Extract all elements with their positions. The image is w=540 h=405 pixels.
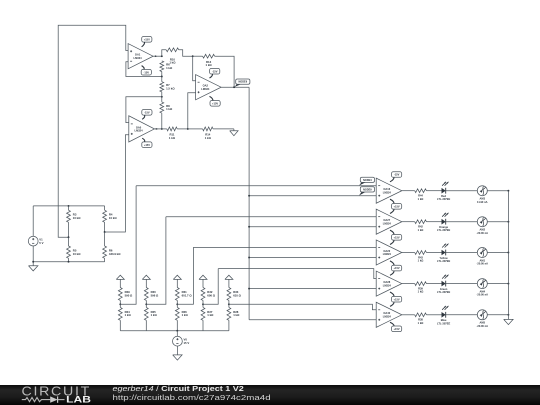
svg-text:LTL-307EE: LTL-307EE <box>437 259 450 263</box>
svg-text:+15V: +15V <box>144 143 150 147</box>
svg-text:1 kΩ: 1 kΩ <box>151 313 158 317</box>
svg-text:LAB: LAB <box>66 395 91 405</box>
svg-text:-20.00 nA: -20.00 nA <box>477 324 489 328</box>
svg-text:1 kΩ: 1 kΩ <box>166 107 173 111</box>
svg-text:LTL-307EE: LTL-307EE <box>437 321 450 325</box>
svg-text:1 kΩ: 1 kΩ <box>206 63 213 67</box>
svg-text:1 kΩ: 1 kΩ <box>418 259 424 263</box>
svg-text:-15V: -15V <box>212 69 218 73</box>
svg-text:11.90 nA: 11.90 nA <box>477 200 488 204</box>
svg-text:LTL-307EE: LTL-307EE <box>437 228 450 232</box>
svg-text:LM324: LM324 <box>134 129 143 133</box>
svg-text:NODE9: NODE9 <box>238 81 247 84</box>
svg-text:+15V: +15V <box>394 266 400 270</box>
svg-text:LM324: LM324 <box>383 252 392 256</box>
svg-text:NODE9: NODE9 <box>363 188 372 191</box>
svg-text:+15V: +15V <box>394 235 400 239</box>
svg-text:LM324: LM324 <box>383 315 392 319</box>
svg-text:10 kΩ: 10 kΩ <box>73 216 81 220</box>
svg-text:-15V: -15V <box>144 70 150 74</box>
svg-text:LTL-307EE: LTL-307EE <box>437 290 450 294</box>
svg-text:1 kΩ: 1 kΩ <box>418 321 424 325</box>
svg-text:1 kΩ: 1 kΩ <box>125 313 132 317</box>
svg-text:+15V: +15V <box>212 101 218 105</box>
svg-text:590 Ω: 590 Ω <box>125 293 133 297</box>
svg-text:1 kΩ: 1 kΩ <box>418 197 424 201</box>
svg-text:10 kΩ: 10 kΩ <box>73 252 81 256</box>
svg-text:1 kΩ: 1 kΩ <box>418 290 424 294</box>
svg-text:596 Ω: 596 Ω <box>151 293 159 297</box>
svg-text:15 V: 15 V <box>184 341 190 345</box>
svg-text:-20.00 nA: -20.00 nA <box>477 262 489 266</box>
svg-text:LTL-307EE: LTL-307EE <box>437 197 450 201</box>
svg-text:1 kΩ: 1 kΩ <box>233 313 240 317</box>
svg-text:430.9 kΩ: 430.9 kΩ <box>109 252 121 256</box>
svg-text:+15V: +15V <box>394 297 400 301</box>
svg-text:egerber14 / Circuit Project 1: egerber14 / Circuit Project 1 V2 <box>113 384 244 393</box>
svg-text:-15V: -15V <box>394 173 400 177</box>
svg-text:1 kΩ: 1 kΩ <box>205 136 212 140</box>
svg-text:601.7 Ω: 601.7 Ω <box>182 293 193 297</box>
svg-text:10 kΩ: 10 kΩ <box>109 216 117 220</box>
svg-text:LM324: LM324 <box>201 87 210 91</box>
svg-text:LM324: LM324 <box>134 56 143 60</box>
svg-text:-20.00 nA: -20.00 nA <box>477 293 489 297</box>
svg-text:-20.00 nA: -20.00 nA <box>477 231 489 235</box>
svg-text:http://circuitlab.com/c27a974c: http://circuitlab.com/c27a974c2ma4d <box>113 393 271 402</box>
svg-text:LM324: LM324 <box>383 283 392 287</box>
svg-text:1 kΩ: 1 kΩ <box>166 66 173 70</box>
svg-text:606 Ω: 606 Ω <box>207 293 215 297</box>
svg-text:1 kΩ: 1 kΩ <box>169 61 176 65</box>
svg-text:1 kΩ: 1 kΩ <box>418 228 424 232</box>
svg-text:1 kΩ: 1 kΩ <box>207 313 214 317</box>
svg-text:5 V: 5 V <box>39 241 43 245</box>
svg-text:+15V: +15V <box>394 204 400 208</box>
svg-text:1 kΩ: 1 kΩ <box>169 136 176 140</box>
svg-text:610 Ω: 610 Ω <box>233 293 241 297</box>
svg-text:LM324: LM324 <box>383 190 392 194</box>
svg-text:-15V: -15V <box>144 110 150 114</box>
svg-text:LM324: LM324 <box>383 221 392 225</box>
svg-text:+15V: +15V <box>394 327 400 331</box>
svg-text:NODE4: NODE4 <box>363 179 372 182</box>
svg-text:1.5 kΩ: 1.5 kΩ <box>166 87 175 91</box>
svg-text:+15V: +15V <box>144 37 150 41</box>
svg-text:1 kΩ: 1 kΩ <box>182 313 189 317</box>
